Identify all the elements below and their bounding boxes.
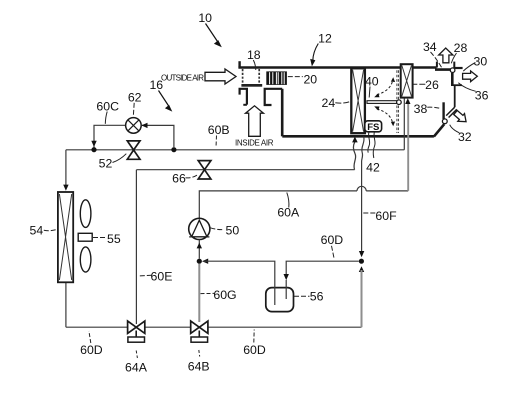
- damper 34 (top outlet): [435, 68, 451, 71]
- blower 20 (hatched box): [266, 71, 287, 85]
- flow arrow down into node: [359, 251, 364, 257]
- svg-text:60D: 60D: [321, 233, 344, 247]
- node (174,150): [171, 147, 176, 152]
- svg-text:62: 62: [128, 91, 142, 105]
- svg-text:64A: 64A: [125, 361, 148, 375]
- heat exchanger 26: [401, 64, 413, 97]
- svg-text:60B: 60B: [208, 123, 230, 137]
- 60D header left segment: [204, 261, 275, 305]
- inside-air opening bracket left: [240, 89, 247, 105]
- valve 52: [127, 141, 140, 159]
- svg-text:42: 42: [366, 161, 380, 175]
- damper 40 pivot: [397, 100, 402, 105]
- component 62 (circle with X): [126, 118, 142, 134]
- pump 50: [189, 218, 210, 239]
- 60D header right segment: [286, 261, 359, 275]
- valve 64A: [128, 321, 145, 333]
- 60F downcomer from HX24: [362, 137, 364, 252]
- inside air arrow: [246, 106, 264, 137]
- damper 40 swing arc upper: [374, 77, 395, 97]
- svg-text:36: 36: [475, 89, 489, 103]
- svg-text:26: 26: [425, 78, 439, 92]
- svg-text:38: 38: [414, 102, 428, 116]
- svg-text:60D: 60D: [80, 343, 103, 357]
- HX26 return riser: [403, 99, 405, 150]
- 60C bypass left riser: [94, 125, 126, 149]
- fan 55: [78, 200, 92, 272]
- svg-text:12: 12: [318, 31, 332, 45]
- pump suction: [198, 240, 200, 259]
- HX24 supply pipe (wavy riser): [354, 142, 356, 170]
- svg-text:60E: 60E: [151, 270, 173, 284]
- flow arrow into HX24: [352, 137, 358, 143]
- damper 40 swing arc lower: [374, 106, 395, 126]
- svg-text:28: 28: [454, 41, 468, 55]
- inside-air opening bracket right / chamber wall: [265, 89, 283, 137]
- outlet arrow 28 (up): [439, 48, 453, 63]
- svg-text:32: 32: [458, 130, 472, 144]
- svg-text:50: 50: [226, 223, 240, 237]
- bottom line 60D: [66, 326, 362, 328]
- node (361,261): [359, 259, 364, 264]
- svg-text:FS: FS: [367, 122, 379, 133]
- svg-text:24: 24: [322, 96, 336, 110]
- flow arrow up into pump: [197, 243, 202, 249]
- coolant line 60E corner + line 2 to HX24: [136, 169, 354, 171]
- svg-text:60G: 60G: [213, 288, 236, 302]
- filter 18: [241, 69, 262, 87]
- flow arrow left into node: [202, 259, 208, 264]
- node (94,150): [91, 147, 96, 152]
- duct top wall 12: [238, 61, 462, 68]
- FS sensor box: [365, 121, 382, 132]
- damper 38: [442, 102, 444, 119]
- air-mix damper 40 blade (horizontal): [367, 101, 398, 104]
- 60B left corner down to HX 54: [65, 150, 67, 186]
- flow arrow into HX54: [63, 185, 68, 191]
- duct bottom wall: [282, 124, 444, 136]
- outside air arrow: [205, 69, 236, 84]
- svg-text:10: 10: [198, 11, 212, 25]
- outlet arrow 32 (tilted): [452, 109, 469, 126]
- 60A hop over 60F: [357, 186, 366, 191]
- flow arrow into HX26: [405, 98, 410, 104]
- damper 40 blade (vertical, dashed): [396, 70, 398, 133]
- svg-text:30: 30: [474, 54, 488, 68]
- svg-text:55: 55: [107, 232, 121, 246]
- svg-text:66: 66: [172, 172, 186, 186]
- 60E vertical: [135, 170, 137, 324]
- outlet arrow 30 (right): [463, 71, 478, 82]
- damper 38 pivot: [442, 119, 447, 124]
- sensor wires 42: [368, 132, 370, 153]
- 60A riser to HX26 (gray): [407, 101, 409, 191]
- svg-text:60D: 60D: [243, 343, 266, 357]
- svg-text:INSIDE AIR: INSIDE AIR: [235, 138, 274, 147]
- duct right wall / outlet 30 lips: [446, 85, 462, 117]
- flow arrow down into node: [91, 141, 96, 147]
- pump 50 discharge / 60A line: [199, 191, 357, 219]
- node (199,261): [197, 259, 202, 264]
- damper 34 pivot: [450, 68, 455, 73]
- svg-text:OUTSIDE AIR: OUTSIDE AIR: [161, 73, 204, 82]
- damper 36: [451, 73, 454, 86]
- svg-text:56: 56: [310, 289, 324, 303]
- svg-text:60C: 60C: [96, 99, 119, 113]
- 60C right segment: [141, 125, 174, 147]
- svg-text:54: 54: [30, 223, 44, 237]
- coolant line 60B (main horizontal): [66, 149, 404, 151]
- valve 64B: [191, 321, 208, 333]
- svg-text:64B: 64B: [188, 360, 210, 374]
- heat exchanger 24: [351, 68, 365, 133]
- svg-text:40: 40: [365, 75, 379, 89]
- valve 66: [198, 161, 211, 179]
- svg-text:34: 34: [423, 40, 437, 54]
- svg-text:16: 16: [149, 78, 163, 92]
- svg-text:52: 52: [99, 157, 113, 171]
- svg-text:18: 18: [247, 48, 261, 62]
- svg-text:20: 20: [303, 72, 317, 86]
- tank 56: [266, 288, 294, 312]
- flow arrow down into tank: [284, 274, 289, 280]
- 60G vertical (gray): [198, 264, 200, 323]
- svg-text:60F: 60F: [375, 209, 397, 223]
- 60F lower vertical (gray): [361, 270, 363, 325]
- flow arrow up below node: [359, 266, 364, 272]
- flow arrow into 62: [141, 123, 147, 128]
- outdoor HX 54: [58, 192, 73, 282]
